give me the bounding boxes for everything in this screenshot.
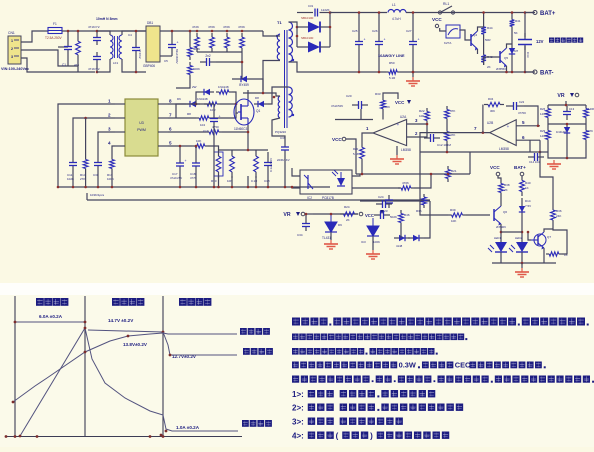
svg-text:VCC: VCC xyxy=(432,17,442,22)
svg-text:104: 104 xyxy=(200,123,205,127)
svg-text:1N4148: 1N4148 xyxy=(556,130,566,134)
svg-text:474/X2: 474/X2 xyxy=(138,49,142,59)
svg-text:1K: 1K xyxy=(525,186,529,190)
wire opto right top xyxy=(352,174,360,176)
chart bottom dots xyxy=(5,435,8,438)
capacitor C34 xyxy=(302,219,310,231)
svg-text:LED1: LED1 xyxy=(494,236,501,240)
wire C17 top xyxy=(179,146,181,158)
wire choke top left xyxy=(97,31,110,35)
wire C5 top xyxy=(171,31,173,36)
svg-text:472K: 472K xyxy=(192,25,199,29)
wire vcc to relay xyxy=(440,28,447,31)
svg-text:C27: C27 xyxy=(406,29,412,33)
svg-text:140K: 140K xyxy=(540,112,547,116)
capacitor C1 xyxy=(64,36,72,60)
wire R1 top xyxy=(189,31,191,44)
svg-text:6: 6 xyxy=(169,127,172,132)
svg-text:R8: R8 xyxy=(187,112,191,116)
capacitor C18 xyxy=(264,152,272,176)
svg-text:R29: R29 xyxy=(540,129,546,133)
wire vcc to R38 xyxy=(498,176,501,180)
svg-text:1>:: 1>: xyxy=(292,390,304,399)
wire gnd stub led xyxy=(521,263,523,268)
capacitor C4 xyxy=(132,38,140,60)
wire to gnd rail xyxy=(97,172,99,187)
svg-text:R33: R33 xyxy=(375,92,381,96)
wire D5 to primary xyxy=(256,79,263,90)
junction R41 rail xyxy=(511,11,514,14)
svg-text:3>:: 3>: xyxy=(292,417,304,426)
wire R46 net xyxy=(400,226,402,238)
svg-text:PWM: PWM xyxy=(137,128,146,132)
svg-text:VR: VR xyxy=(557,93,564,99)
svg-text:L1: L1 xyxy=(392,3,396,7)
svg-text:10mH N 8mm: 10mH N 8mm xyxy=(96,17,117,21)
wire U2B in+ xyxy=(516,125,540,127)
svg-text:1222K: 1222K xyxy=(321,8,330,12)
resistor R6 clamp xyxy=(240,33,245,52)
svg-text:C26: C26 xyxy=(372,29,378,33)
wire Q7 emitter xyxy=(543,248,545,263)
svg-text:1N4148: 1N4148 xyxy=(197,97,208,101)
terminal BAT- xyxy=(533,70,554,76)
junction C34 xyxy=(305,213,308,216)
wire pin6 net xyxy=(168,131,206,133)
junction clamp top xyxy=(241,30,244,33)
wire cap top xyxy=(378,13,380,37)
wire clamp node to drain xyxy=(262,79,264,93)
svg-text:2K: 2K xyxy=(504,188,508,192)
svg-text:C24: C24 xyxy=(378,195,384,199)
net label VR xyxy=(283,212,304,218)
bridge rectifier DB1 xyxy=(143,21,160,68)
capacitor C23 xyxy=(385,195,393,208)
wire ladder top xyxy=(548,104,586,106)
wire diode net xyxy=(424,201,430,238)
svg-text:C18: C18 xyxy=(264,179,270,183)
resistor R5 xyxy=(216,90,232,94)
svg-text:C1: C1 xyxy=(62,63,66,67)
wire primary gnd rail xyxy=(58,186,330,188)
junction C4 top xyxy=(135,30,138,33)
svg-text:Q5: Q5 xyxy=(504,56,508,60)
switch RL1 contact xyxy=(438,2,454,14)
wire diode join xyxy=(329,13,331,48)
wire top rail xyxy=(62,30,146,32)
resistor R38 xyxy=(499,180,504,196)
svg-text:82uF/400V: 82uF/400V xyxy=(175,49,179,64)
svg-text:R24: R24 xyxy=(344,205,350,209)
wire in- down xyxy=(529,140,531,152)
pin 6 U3 xyxy=(158,131,168,133)
junction RV1 top xyxy=(77,30,80,33)
wire primary bottom xyxy=(263,61,280,80)
svg-text:C5: C5 xyxy=(164,59,168,63)
wire pin3 net xyxy=(98,132,115,156)
junction gnd rail xyxy=(97,186,100,189)
svg-text:VCC: VCC xyxy=(365,213,374,218)
svg-text:4770K: 4770K xyxy=(518,111,526,115)
wire R45 link xyxy=(540,152,553,206)
svg-text:0.3W: 0.3W xyxy=(399,361,416,370)
wire to gnd rail xyxy=(111,172,113,187)
diode D40 xyxy=(394,235,410,241)
diode D11 xyxy=(509,44,515,58)
wire lower rail left up xyxy=(86,193,88,200)
svg-text:27K: 27K xyxy=(588,129,593,133)
chart curve charging voltage xyxy=(20,328,238,436)
wire sense gnd xyxy=(247,176,249,187)
ground TL431 xyxy=(324,240,338,249)
svg-text:24K: 24K xyxy=(556,214,561,218)
resistor R45 xyxy=(551,206,556,224)
capacitor C27 xyxy=(409,36,420,50)
junction diode join xyxy=(329,26,332,29)
wire net down xyxy=(446,144,448,152)
wire to BAT- xyxy=(525,71,533,73)
wire bridge out bottom xyxy=(160,55,172,57)
capacitor C13 xyxy=(563,106,571,120)
wire R47 link xyxy=(553,229,567,254)
resistor R36 xyxy=(422,194,427,208)
chart curve battery voltage xyxy=(13,333,237,402)
svg-text:8: 8 xyxy=(169,99,172,104)
wire return rail2 xyxy=(400,71,535,73)
chart line 14.7V level xyxy=(88,330,163,332)
label dianchidianya xyxy=(240,328,270,335)
wire R39 left xyxy=(420,132,448,215)
junction pin2 R14 xyxy=(84,117,87,120)
svg-text:C19: C19 xyxy=(203,129,209,133)
wire to gnd rail xyxy=(85,172,87,187)
wire C33 top xyxy=(524,13,526,38)
wire relay to Q4 xyxy=(459,30,471,40)
junction cap bottom xyxy=(378,71,381,74)
capacitor C16 xyxy=(192,158,200,171)
svg-text:BY459: BY459 xyxy=(239,83,249,87)
resistor R14 xyxy=(83,156,88,172)
wire U2A gnd xyxy=(396,146,398,155)
svg-text:47K: 47K xyxy=(450,133,455,137)
wire fb mid rail xyxy=(356,173,470,175)
svg-text:): ) xyxy=(370,431,373,440)
IC U3 PWM controller xyxy=(125,99,158,156)
svg-text:502K: 502K xyxy=(390,215,397,219)
wire R33 vcc xyxy=(383,93,398,99)
junction clamp top xyxy=(211,30,214,33)
diode D45 xyxy=(408,235,424,241)
resistor R32 sense xyxy=(254,150,259,178)
resistor R13 xyxy=(110,156,115,172)
svg-text:IC2: IC2 xyxy=(307,196,312,200)
junction cap bottom xyxy=(358,71,361,74)
wire IC3 gnd xyxy=(372,236,374,250)
svg-text:R44: R44 xyxy=(487,26,493,30)
wire Q4 collector xyxy=(478,27,484,31)
svg-text:Q4: Q4 xyxy=(473,33,477,37)
svg-text:Q6: Q6 xyxy=(503,210,507,214)
diode D10b output rectifier xyxy=(297,36,330,53)
capacitor C20 xyxy=(352,101,368,109)
wire aux winding bottom xyxy=(272,118,280,130)
capacitor C5 bulk xyxy=(168,36,179,56)
wire R33 down xyxy=(382,112,384,120)
wire VR to cap xyxy=(305,213,313,215)
junction C2 xyxy=(96,30,99,33)
svg-text:5.1K: 5.1K xyxy=(353,152,359,156)
svg-text:IC3: IC3 xyxy=(361,240,366,244)
junction gnd rail xyxy=(57,186,60,189)
wire net col2 xyxy=(446,122,448,128)
wire R39 right xyxy=(466,214,490,216)
resistor R27a xyxy=(445,128,450,144)
wire C16 gnd xyxy=(195,171,197,187)
svg-text:27K: 27K xyxy=(80,177,85,181)
junction C16 pin5 xyxy=(195,145,198,148)
junction sense gnd xyxy=(255,186,258,189)
label phase3 xyxy=(179,298,211,306)
junction U2B out xyxy=(482,131,485,134)
svg-text:4.7uH: 4.7uH xyxy=(392,17,401,21)
svg-text:SB10100: SB10100 xyxy=(301,36,314,40)
ground IC3 xyxy=(366,250,380,259)
junction gnd rail xyxy=(111,186,114,189)
svg-text:30K: 30K xyxy=(385,105,390,109)
capacitor C2 xyxy=(93,33,101,45)
capacitor C3 xyxy=(93,52,101,64)
wire zener down xyxy=(521,220,523,242)
junction cap bottom xyxy=(412,71,415,74)
label chongdiandianya xyxy=(243,348,273,355)
wire cap bottom xyxy=(378,50,380,72)
wire C1 top xyxy=(67,31,69,36)
svg-text:10R: 10R xyxy=(210,108,216,112)
svg-text:D9: D9 xyxy=(338,223,342,227)
junction U2B y152 xyxy=(539,151,542,154)
svg-text:2>:: 2>: xyxy=(292,403,304,412)
wire led1 bottom xyxy=(500,252,502,263)
svg-text:U2B: U2B xyxy=(487,121,493,125)
wire fb rail right xyxy=(469,152,471,174)
capacitor C39 Y-cap xyxy=(281,141,289,156)
svg-text:103K/1pcs: 103K/1pcs xyxy=(90,193,105,197)
wire R5 right xyxy=(232,92,236,104)
resistor R8 xyxy=(196,116,212,120)
wire pin1 net xyxy=(58,104,115,187)
junction q5 gnd xyxy=(505,71,508,74)
ground U2A xyxy=(390,155,404,164)
junction ladder top xyxy=(565,104,568,107)
resistor R33 xyxy=(381,97,386,112)
capacitor C11 xyxy=(69,156,77,172)
resistor R31 sense xyxy=(230,150,235,178)
svg-text:+: + xyxy=(384,38,386,42)
wire C20 down xyxy=(360,109,362,120)
resistor R4 clamp xyxy=(210,33,215,52)
svg-text:C22: C22 xyxy=(519,100,525,104)
resistor R47 xyxy=(546,252,562,256)
svg-text:6: 6 xyxy=(522,135,525,140)
wire Q4 emitter xyxy=(477,49,479,54)
svg-text:5K: 5K xyxy=(514,31,518,35)
label chongdiandianliu xyxy=(242,420,272,427)
svg-text:140K: 140K xyxy=(540,134,547,138)
svg-text:+: + xyxy=(219,115,221,119)
diode D5 clamp xyxy=(232,76,256,87)
svg-text:6.0A ±0.2A: 6.0A ±0.2A xyxy=(39,314,63,319)
diode D13 xyxy=(564,123,570,137)
svg-text:7: 7 xyxy=(474,126,477,131)
wire R14 drop xyxy=(85,118,87,156)
svg-text:RL1: RL1 xyxy=(443,2,449,6)
wire y201 fb xyxy=(360,200,430,202)
resistor R2 startup xyxy=(188,62,193,78)
resistor R5 clamp xyxy=(225,33,230,52)
svg-text:CN1: CN1 xyxy=(8,31,15,35)
junction sense gnd xyxy=(247,186,250,189)
svg-text:LM358: LM358 xyxy=(401,148,411,152)
wire y152 to ladder xyxy=(540,151,548,153)
wire pin2 net xyxy=(73,118,115,156)
svg-text:Q1: Q1 xyxy=(256,109,260,113)
junction cap top xyxy=(412,11,415,14)
wire C19 gnd xyxy=(213,128,215,187)
wire pin5 net xyxy=(168,145,192,147)
wire clamp bottom node xyxy=(197,51,242,53)
svg-text:R41: R41 xyxy=(515,19,521,23)
MOSFET Q1 xyxy=(234,99,260,131)
ground secondary xyxy=(406,77,420,86)
resistor R26a xyxy=(445,106,450,122)
wire C17 gnd xyxy=(179,171,181,187)
junction clamp top xyxy=(226,30,229,33)
svg-text:16AWG/Y LINE: 16AWG/Y LINE xyxy=(378,54,405,58)
svg-text:C13: C13 xyxy=(569,107,575,111)
svg-text:R40: R40 xyxy=(525,181,531,185)
capacitor C26 xyxy=(375,36,386,50)
junction ladder mid xyxy=(566,123,569,126)
wire R20 to rail xyxy=(361,163,363,174)
svg-text:R39: R39 xyxy=(450,208,456,212)
svg-text:VCC: VCC xyxy=(332,137,342,142)
wire U2B out xyxy=(420,132,490,134)
svg-text:TL431: TL431 xyxy=(322,236,331,240)
junction C17 pin5 xyxy=(179,145,182,148)
wire R41 D11 xyxy=(511,29,513,44)
wire q5 collector xyxy=(507,44,513,48)
svg-text:VIN:100-240Vac: VIN:100-240Vac xyxy=(1,67,29,71)
wire cap bottom xyxy=(358,50,360,72)
junction C39 gnd xyxy=(284,186,287,189)
svg-text:R38: R38 xyxy=(504,183,510,187)
wire drain xyxy=(247,90,249,99)
svg-text:R46: R46 xyxy=(404,213,410,217)
resistor R41 xyxy=(510,17,515,29)
resistor R3 clamp xyxy=(195,33,200,52)
pin 2 U3 xyxy=(115,117,125,119)
wire D11 bottom xyxy=(511,58,513,72)
svg-text:470K: 470K xyxy=(208,25,215,29)
wire aux out xyxy=(268,87,289,104)
svg-text:10K: 10K xyxy=(419,114,424,118)
transistor Q4 xyxy=(471,31,478,51)
wire out rail2 xyxy=(406,12,535,14)
svg-text:3: 3 xyxy=(108,127,111,132)
junction R44 rail xyxy=(482,11,485,14)
svg-text:11N60C3: 11N60C3 xyxy=(234,127,247,131)
wire C16 top xyxy=(195,146,197,158)
junction cap top xyxy=(358,11,361,14)
capacitor C28 xyxy=(374,211,390,219)
junction out rail xyxy=(361,173,364,176)
junction sense gnd xyxy=(231,186,234,189)
svg-text:471K/Y2: 471K/Y2 xyxy=(88,25,100,29)
wire pin8 net xyxy=(168,103,186,105)
transistor Q6 xyxy=(494,206,507,229)
wire sense top xyxy=(218,149,268,151)
svg-text:2K: 2K xyxy=(346,218,350,222)
svg-text:14.7V ±0.2V: 14.7V ±0.2V xyxy=(108,318,134,323)
diode D6 xyxy=(186,101,200,107)
wire C4 bottom xyxy=(135,60,137,72)
junction TL431 xyxy=(330,213,333,216)
svg-text:+: + xyxy=(397,122,400,127)
resistor R44 xyxy=(481,24,486,37)
svg-text:CEC: CEC xyxy=(455,361,471,370)
wire sense gnd xyxy=(267,176,269,187)
pin 4 U3 xyxy=(115,145,125,147)
wire Q7 collector xyxy=(544,224,553,232)
wire gate xyxy=(220,104,238,113)
LED LED1 xyxy=(488,236,507,252)
note text line xyxy=(292,348,438,355)
svg-text:C33: C33 xyxy=(526,52,530,58)
svg-text:140K: 140K xyxy=(588,107,594,111)
svg-text:Q7: Q7 xyxy=(547,235,551,239)
resistor R20b xyxy=(360,143,365,163)
resistor R22 xyxy=(425,108,430,124)
wire fb lower xyxy=(414,174,431,188)
wire fb up xyxy=(482,105,484,133)
svg-text:C20: C20 xyxy=(346,94,352,98)
svg-text:600K: 600K xyxy=(193,67,200,71)
svg-text:PQ3220: PQ3220 xyxy=(275,130,286,134)
wire U2A in+ xyxy=(407,123,427,125)
svg-text:K2?A: K2?A xyxy=(444,41,451,45)
junction drain node xyxy=(262,92,265,95)
wire TL431 top xyxy=(313,213,358,215)
wire CN1 pin2 xyxy=(21,50,78,72)
wire aux vcc xyxy=(176,104,214,118)
wire choke bottom right xyxy=(122,59,146,72)
capacitor C25 xyxy=(355,36,366,50)
label phase1 xyxy=(36,298,68,306)
relay K1 coil xyxy=(444,25,460,45)
chart line 6.0A level xyxy=(15,321,85,323)
svg-text:C14 104: C14 104 xyxy=(529,160,540,164)
svg-text:PC817B: PC817B xyxy=(322,196,334,200)
junction fb xyxy=(430,173,433,176)
svg-text:30K: 30K xyxy=(490,109,495,113)
wire lower rail xyxy=(87,199,430,201)
junction ladder gnd xyxy=(566,157,569,160)
svg-text:0.1R: 0.1R xyxy=(251,179,258,183)
svg-text:C12 104M: C12 104M xyxy=(437,143,451,147)
wire TL431 gnd xyxy=(330,232,332,240)
fuse F1 xyxy=(45,22,63,40)
wire choke top right xyxy=(122,31,146,35)
